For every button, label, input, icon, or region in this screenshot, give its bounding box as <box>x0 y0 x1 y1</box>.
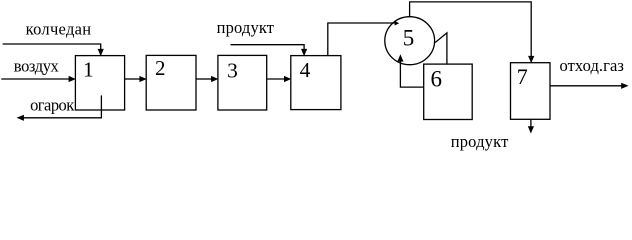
box 7 <box>511 63 551 120</box>
svg-text:огарок: огарок <box>30 95 75 114</box>
arrowhead right into box 2 <box>139 76 146 82</box>
arrowhead right into box 1 left (vozduh) <box>69 76 76 82</box>
arrowhead down (produkt out of box 7) <box>528 126 534 133</box>
wire: box 2 to box 3 <box>196 78 212 80</box>
box 3 <box>218 55 267 110</box>
svg-text:продукт: продукт <box>451 132 509 151</box>
wire: box 7 bottom down to produkt arrow <box>530 119 532 127</box>
arrowhead left (ogarok out) <box>17 115 24 121</box>
wire: box 4 top up and right into circle 5 <box>328 23 395 56</box>
svg-text:1: 1 <box>83 58 94 82</box>
svg-text:3: 3 <box>227 58 238 82</box>
wire: produkt feed line into box 4 top <box>231 45 305 50</box>
svg-text:колчедан: колчедан <box>26 19 92 38</box>
svg-text:воздух: воздух <box>14 56 60 75</box>
svg-text:7: 7 <box>517 64 528 89</box>
svg-text:продукт: продукт <box>217 18 274 37</box>
arrowhead right (othod.gaz out) <box>621 83 628 89</box>
wire: box 6 left, up into circle 5 bottom <box>400 60 423 87</box>
wire: box 7 right to othod.gaz arrow <box>550 85 622 87</box>
wire: circle 5 right diagonal down into box 6 top <box>435 33 447 64</box>
box 4 <box>291 56 341 110</box>
arrowhead down into box 1 top <box>98 49 104 56</box>
arrowhead down into box 7 top <box>528 56 534 63</box>
svg-text:5: 5 <box>403 26 415 51</box>
wire: circle 5 top up, across, down into box 7 top <box>410 2 532 57</box>
box 6 <box>424 64 473 119</box>
svg-text:6: 6 <box>430 67 442 92</box>
wire: vozduh arrow line into box 1 left <box>1 78 69 80</box>
wire: kolchedan feed line into box 1 top <box>3 44 101 50</box>
wire: ogarok line out of box 1 bottom <box>23 95 101 117</box>
box 2 <box>146 55 196 110</box>
svg-text:4: 4 <box>300 58 311 82</box>
arrowhead right into box 4 <box>284 76 291 82</box>
box 1 (furnace) <box>75 56 124 110</box>
arrowhead down into box 4 top (produkt) <box>301 49 307 56</box>
arrowhead up into circle 5 bottom <box>397 54 403 61</box>
arrowhead right into circle 5 left <box>395 21 400 26</box>
arrowhead right into box 3 <box>211 76 218 82</box>
wire: box 3 to box 4 <box>267 78 285 80</box>
circle 5 (contact apparatus) <box>385 17 435 65</box>
svg-text:отход.газ: отход.газ <box>560 56 624 75</box>
svg-text:2: 2 <box>155 56 166 80</box>
wire: box 1 to box 2 <box>125 78 140 80</box>
